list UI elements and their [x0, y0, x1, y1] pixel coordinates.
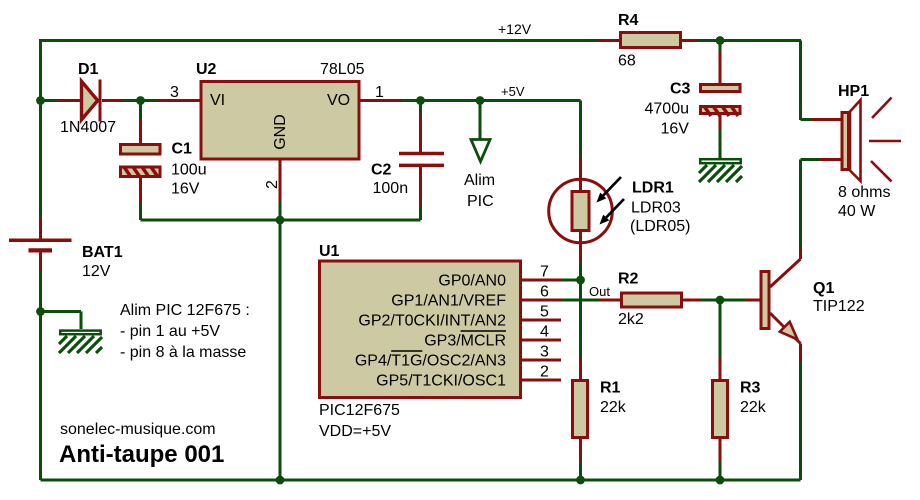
sound rays [869, 98, 901, 182]
capacitor C1 100u [121, 120, 207, 203]
svg-text:LDR03: LDR03 [631, 200, 681, 217]
svg-text:VI: VI [210, 92, 225, 109]
photoresistor LDR1 [549, 158, 691, 261]
wire C1 branch [139, 101, 142, 221]
svg-text:(LDR05): (LDR05) [630, 218, 690, 235]
svg-text:+12V: +12V [498, 21, 532, 37]
node Out label [589, 284, 610, 299]
svg-text:2: 2 [264, 180, 281, 189]
capacitor C2 100n [371, 114, 444, 205]
wire speaker bottom to Q1 collector [801, 160, 821, 248]
pin GP2/T0CKI/INT/AN2 [522, 319, 561, 322]
wire speaker top [801, 118, 813, 121]
svg-text:- pin 1 au +5V: - pin 1 au +5V [120, 323, 220, 340]
wire Q1 emitter to ground rail [799, 362, 802, 480]
regulator U2 78L05 [158, 61, 401, 201]
svg-text:R2: R2 [618, 271, 639, 288]
svg-text:100u: 100u [171, 162, 207, 179]
wire Out run pin6 to R2 [561, 299, 600, 302]
wire D1 row [41, 99, 159, 102]
junction node GP0/LDR/R1 [576, 276, 585, 285]
junction node R4/C3 [716, 36, 725, 45]
svg-text:- pin 8 à la masse: - pin 8 à la masse [120, 344, 246, 361]
svg-text:4700u: 4700u [645, 101, 690, 118]
svg-text:22k: 22k [600, 399, 627, 416]
svg-text:GND: GND [272, 114, 289, 150]
wire U2 pin2 drop [279, 201, 282, 220]
svg-text:8 ohms: 8 ohms [838, 184, 890, 201]
site label [60, 421, 216, 438]
svg-text:GP2/T0CKI/INT/AN2: GP2/T0CKI/INT/AN2 [358, 313, 506, 330]
note Alim PIC 12F675 [120, 302, 250, 361]
svg-text:3: 3 [170, 84, 179, 101]
junction node C2 tap [416, 96, 425, 105]
svg-text:C2: C2 [371, 162, 392, 179]
pin GP4/T1G/OSC2/AN3 with overline [522, 359, 561, 362]
wire LDR to pin7 [579, 261, 582, 280]
svg-text:sonelec-musique.com: sonelec-musique.com [60, 421, 216, 438]
svg-text:R4: R4 [618, 12, 639, 29]
pin GP1/AN1/VREF [522, 299, 561, 302]
svg-text:100n: 100n [373, 180, 409, 197]
ground symbol battery [59, 331, 102, 353]
svg-text:GP3/MCLR: GP3/MCLR [424, 333, 506, 350]
svg-text:12V: 12V [82, 263, 111, 280]
svg-text:5: 5 [540, 304, 549, 321]
node +12V label [498, 21, 532, 37]
svg-text:C1: C1 [172, 141, 193, 158]
pin GP3/MCLR with overline [522, 339, 561, 342]
svg-text:GP0/AN0: GP0/AN0 [438, 273, 506, 290]
node +5V label [501, 84, 525, 99]
svg-text:TIP122: TIP122 [813, 298, 865, 315]
svg-text:VDD=+5V: VDD=+5V [319, 423, 391, 440]
svg-text:Out: Out [589, 284, 610, 299]
svg-text:22k: 22k [740, 399, 767, 416]
svg-text:D1: D1 [78, 61, 99, 78]
emitter [770, 313, 801, 362]
svg-text:BAT1: BAT1 [82, 244, 123, 261]
capacitor C3 4700u [645, 52, 741, 138]
battery BAT1 [9, 218, 123, 280]
svg-text:C3: C3 [670, 81, 691, 98]
wire C2 branch [419, 101, 422, 221]
light arrow 1 [603, 177, 621, 196]
svg-text:7: 7 [540, 264, 549, 281]
light arrow 2 [606, 199, 624, 218]
svg-text:16V: 16V [171, 181, 200, 198]
junction node Alim tap [476, 96, 485, 105]
svg-text:Alim: Alim [464, 172, 495, 189]
svg-text:68: 68 [618, 53, 636, 70]
wire node GP0 down to R1 [579, 280, 582, 358]
svg-text:78L05: 78L05 [320, 61, 365, 78]
junction node bottom rail R1 [576, 476, 585, 485]
svg-text:Q1: Q1 [813, 280, 834, 297]
svg-text:16V: 16V [661, 121, 690, 138]
svg-text:3: 3 [540, 344, 549, 361]
svg-text:2k2: 2k2 [618, 311, 644, 328]
speaker HP1 [812, 83, 901, 220]
wire Alim PIC stub [479, 101, 482, 140]
junction node C1 tap [136, 96, 145, 105]
junction node bottom rail mid [276, 476, 285, 485]
svg-text:PIC12F675: PIC12F675 [319, 402, 400, 419]
svg-text:Alim PIC 12F675 :: Alim PIC 12F675 : [120, 302, 250, 319]
svg-text:HP1: HP1 [838, 83, 869, 100]
svg-text:LDR1: LDR1 [632, 180, 674, 197]
svg-text:VO: VO [327, 92, 350, 109]
resistor R4 68 [598, 12, 698, 70]
junction node R2/R3/base [716, 296, 725, 305]
svg-text:U1: U1 [319, 243, 340, 260]
title Anti-taupe 001 [59, 441, 224, 468]
IC U1 PIC12F675 [319, 243, 561, 440]
svg-text:1: 1 [375, 84, 384, 101]
resistor R1 22k [573, 358, 627, 461]
wire battery gnd branch [41, 312, 82, 330]
junction node battery minus [36, 307, 45, 316]
svg-text:4: 4 [540, 324, 549, 341]
svg-text:U2: U2 [196, 61, 217, 78]
svg-text:2: 2 [540, 364, 549, 381]
wire pin7 link [561, 279, 581, 282]
svg-text:1N4007: 1N4007 [60, 119, 116, 136]
wire gnd mid rail [141, 220, 421, 480]
wire U2 out to +5V [401, 101, 581, 159]
svg-text:GP5/T1CKI/OSC1: GP5/T1CKI/OSC1 [376, 373, 506, 390]
pin GP0/AN0 [522, 279, 561, 282]
wire R2 to Q1 base [701, 299, 746, 302]
ground symbol C3 [699, 159, 742, 182]
junction node GND rail [276, 216, 285, 225]
junction node at left rail top [36, 96, 45, 105]
collector [770, 247, 801, 287]
wire left rail [39, 101, 42, 481]
svg-text:R3: R3 [740, 380, 761, 397]
transistor Q1 TIP122 [746, 247, 865, 362]
wire top rail +12V [41, 41, 802, 121]
svg-text:GP4/T1G/OSC2/AN3: GP4/T1G/OSC2/AN3 [355, 353, 506, 370]
pin GP5/T1CKI/OSC1 [522, 379, 561, 382]
resistor R2 2k2 [600, 271, 701, 329]
wire R1 bottom [579, 461, 582, 480]
resistor R3 22k [713, 358, 767, 461]
junction node bottom rail R3 [716, 476, 725, 485]
svg-text:PIC: PIC [467, 193, 494, 210]
svg-text:Anti-taupe 001: Anti-taupe 001 [59, 441, 224, 468]
wire R3 branch [719, 300, 722, 480]
power arrow Alim PIC [464, 140, 495, 211]
svg-text:R1: R1 [600, 380, 621, 397]
wire C3 branch [719, 41, 722, 159]
svg-text:+5V: +5V [501, 84, 525, 99]
diode D1 [57, 61, 123, 136]
svg-text:40 W: 40 W [838, 203, 876, 220]
svg-text:GP1/AN1/VREF: GP1/AN1/VREF [391, 293, 506, 310]
wire bottom rail [41, 479, 801, 482]
svg-text:6: 6 [540, 284, 549, 301]
